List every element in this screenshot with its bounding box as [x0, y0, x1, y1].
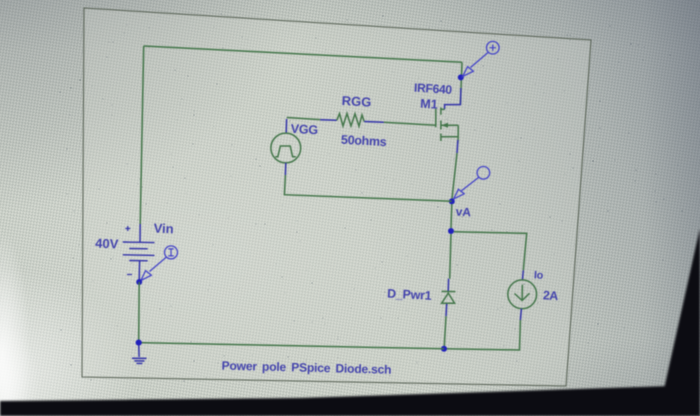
wire: split node right to current source top corner	[454, 232, 527, 271]
gate bar	[435, 109, 437, 128]
label: 50ohms	[341, 133, 387, 150]
monitor bezel bottom	[0, 385, 700, 416]
label: IRF640	[414, 81, 453, 97]
svg-text:D_Pwr1: D_Pwr1	[387, 287, 432, 303]
bottom pin (blue)	[138, 261, 140, 281]
source vertical	[457, 125, 459, 143]
node: split junction dot below vA	[448, 228, 454, 234]
bottom pin (blue)	[520, 309, 521, 320]
svg-text:IRF640: IRF640	[414, 81, 453, 97]
resistor RGG 50ohms	[320, 114, 384, 127]
label: RGG	[341, 93, 371, 110]
svg-text:M1: M1	[420, 97, 438, 112]
top pin (blue)	[285, 119, 287, 133]
body stub with arrow	[441, 124, 458, 126]
label: M1	[420, 97, 438, 112]
svg-text:2A: 2A	[543, 288, 559, 303]
label: VGG	[290, 122, 318, 137]
plates	[123, 241, 155, 244]
bottom pin (blue)	[284, 163, 286, 175]
transistor M1 IRF640 (NMOS)	[384, 88, 461, 153]
node: ground junction dot	[136, 340, 142, 346]
probe: current marker (I) at battery minus node	[141, 246, 178, 281]
cathode pin (blue)	[447, 279, 449, 291]
svg-text:vA: vA	[455, 205, 471, 220]
wire: diode anode down to bottom rail	[444, 316, 446, 346]
wire: bottom rail from ground to diode junction	[139, 343, 444, 349]
left pin (blue)	[320, 119, 337, 122]
wire: current source bottom to bottom rail	[444, 320, 520, 350]
wire: VGG top corner to resistor	[287, 118, 321, 120]
label: vA	[455, 205, 471, 220]
right pin (blue)	[364, 121, 384, 124]
zigzag	[337, 114, 364, 127]
diode D_Pwr1	[442, 279, 456, 317]
svg-text:RGG: RGG	[341, 93, 371, 110]
body circle	[271, 133, 301, 163]
svg-text:Io: Io	[534, 269, 544, 282]
wire: battery node down to ground node	[138, 282, 141, 343]
wire: MOSFET source down to node vA	[452, 153, 457, 200]
wire: split node down to diode	[450, 234, 451, 279]
triangle	[442, 293, 455, 303]
ground symbol	[132, 345, 147, 364]
node: junction dot below battery	[136, 279, 142, 285]
svg-text:50ohms: 50ohms	[341, 133, 387, 150]
anode pin (blue)	[445, 304, 448, 316]
drain pin bend (blue)	[445, 88, 461, 109]
source pin (blue)	[456, 140, 459, 153]
label: sheet title Power pole PSpice Diode sch	[221, 359, 391, 377]
node: bottom rail junction dot	[441, 346, 447, 352]
label: 2A	[543, 288, 559, 303]
pulse waveform	[275, 146, 295, 157]
node vA junction dot	[449, 198, 455, 204]
source Vin 40V (battery)	[123, 224, 155, 281]
minus mark	[127, 274, 132, 276]
plus mark	[125, 226, 130, 231]
source stub	[441, 136, 458, 138]
label: Vin	[153, 221, 174, 237]
label: Io	[534, 269, 544, 282]
node: junction dot at drain / + probe point	[458, 74, 464, 80]
monitor bezel right wedge	[658, 228, 700, 416]
probe: voltage marker (+) at drain node	[463, 41, 500, 76]
top pin (blue)	[521, 270, 524, 280]
wire: drain vertical from top corner down to MOSFET	[460, 62, 462, 104]
wire: vA down to split node	[450, 204, 453, 228]
gate lead from resistor	[384, 122, 436, 125]
arrow inside	[521, 285, 523, 301]
wire: VGG bottom corner to vA	[284, 175, 451, 201]
svg-text:Vin: Vin	[153, 221, 174, 237]
top pin (blue)	[139, 224, 141, 242]
label: D_Pwr1	[387, 287, 432, 303]
current source Io	[508, 270, 537, 320]
channel segments	[440, 108, 442, 142]
source VGG (pulse)	[271, 119, 301, 175]
svg-text:40V: 40V	[95, 236, 119, 252]
label: 40V	[95, 236, 119, 252]
cathode bar	[442, 290, 456, 292]
svg-text:VGG: VGG	[290, 122, 318, 137]
drain stub	[441, 108, 445, 110]
body circle	[508, 280, 537, 309]
wire: top net from left rail to MOSFET drain	[144, 46, 462, 62]
schematic page border	[82, 8, 591, 386]
probe: voltage marker at node vA	[454, 167, 490, 200]
wire: left rail top corner down to battery	[140, 46, 144, 225]
